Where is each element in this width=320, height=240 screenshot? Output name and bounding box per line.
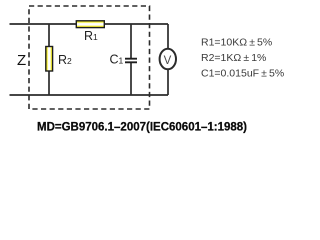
svg-text:C1=0.015uF ± 5%: C1=0.015uF ± 5% — [201, 68, 284, 80]
resistor R2 — [46, 47, 53, 72]
wire: top rail — [10, 23, 169, 25]
svg-text:R1: R1 — [84, 29, 98, 43]
dashed enclosure box — [29, 6, 150, 109]
svg-text:R1=10KΩ ± 5%: R1=10KΩ ± 5% — [201, 37, 272, 49]
wire: meter branch top — [167, 24, 169, 49]
resistor R1 — [76, 21, 104, 28]
wire: C1 branch bottom — [130, 63, 132, 95]
wire: R2 branch — [48, 24, 50, 95]
capacitor C1 — [125, 59, 137, 63]
svg-text:R2: R2 — [58, 53, 72, 67]
svg-text:R2=1KΩ ± 1%: R2=1KΩ ± 1% — [201, 52, 266, 64]
svg-text:C1: C1 — [110, 53, 124, 67]
wire: meter branch bottom — [167, 70, 169, 96]
svg-text:V: V — [164, 55, 172, 67]
wire: bottom rail — [10, 94, 169, 96]
wire: C1 branch top — [130, 24, 132, 58]
voltmeter V — [160, 49, 176, 70]
svg-text:MD=GB9706.1–2007(IEC60601–1:19: MD=GB9706.1–2007(IEC60601–1:1988) — [37, 122, 247, 134]
svg-text:Z: Z — [17, 52, 26, 69]
